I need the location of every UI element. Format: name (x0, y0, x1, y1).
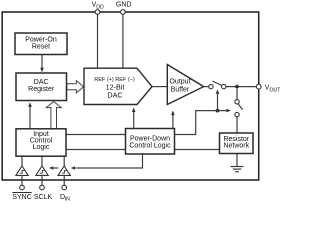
svg-text:Reset: Reset (32, 43, 50, 50)
svg-text:GND: GND (116, 1, 132, 8)
svg-text:Power-On: Power-On (25, 36, 57, 43)
svg-text:Register: Register (28, 86, 55, 93)
svg-text:Control Logic: Control Logic (129, 143, 171, 150)
svg-text:DAC: DAC (107, 91, 122, 100)
svg-text:IN: IN (65, 197, 70, 203)
svg-text:SCLK: SCLK (34, 194, 53, 201)
svg-text:OUT: OUT (270, 87, 281, 93)
svg-text:Buffer: Buffer (171, 87, 190, 94)
svg-text:SYNC: SYNC (12, 194, 31, 201)
svg-text:REF (−): REF (−) (115, 77, 135, 83)
svg-text:DD: DD (96, 4, 104, 10)
svg-text:Output: Output (169, 78, 190, 85)
svg-text:Network: Network (223, 142, 249, 149)
svg-text:REF (+): REF (+) (94, 77, 114, 83)
svg-text:DAC: DAC (34, 79, 49, 86)
svg-text:Logic: Logic (33, 144, 50, 151)
svg-text:Power-Down: Power-Down (130, 136, 170, 143)
